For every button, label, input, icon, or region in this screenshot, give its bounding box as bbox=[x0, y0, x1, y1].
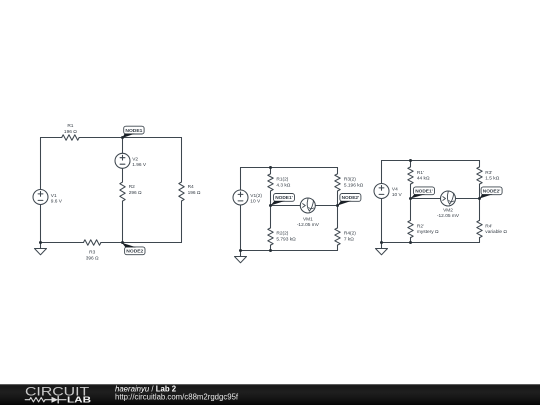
svg-text:VM1: VM1 bbox=[303, 216, 313, 222]
svg-text:196 Ω: 196 Ω bbox=[64, 129, 77, 135]
svg-text:10 V: 10 V bbox=[392, 192, 403, 198]
svg-text:mystery Ω: mystery Ω bbox=[417, 229, 439, 235]
svg-text:10 V: 10 V bbox=[250, 199, 261, 205]
svg-text:R2: R2 bbox=[129, 184, 135, 190]
svg-text:R3': R3' bbox=[485, 170, 492, 176]
svg-text:1.5 kΩ: 1.5 kΩ bbox=[485, 176, 499, 182]
svg-text:V4: V4 bbox=[392, 186, 398, 192]
svg-text:R4(2): R4(2) bbox=[344, 231, 356, 237]
svg-text:NODE2': NODE2' bbox=[483, 189, 501, 195]
svg-text:196 Ω: 196 Ω bbox=[188, 190, 201, 196]
svg-text:http://circuitlab.com/c88m2rgd: http://circuitlab.com/c88m2rgdgc95f bbox=[115, 393, 239, 402]
svg-text:-12.05 mV: -12.05 mV bbox=[297, 222, 320, 228]
svg-text:V1: V1 bbox=[51, 193, 57, 199]
svg-text:R2(2): R2(2) bbox=[276, 231, 288, 237]
svg-text:V1(2): V1(2) bbox=[250, 193, 262, 199]
svg-text:1.96 V: 1.96 V bbox=[132, 162, 147, 168]
svg-text:396 Ω: 396 Ω bbox=[86, 255, 99, 261]
svg-text:V2: V2 bbox=[132, 156, 138, 162]
svg-text:NODE1': NODE1' bbox=[275, 195, 293, 201]
svg-text:NODE1: NODE1 bbox=[125, 128, 142, 134]
svg-text:R2': R2' bbox=[417, 223, 424, 229]
svg-text:44 kΩ: 44 kΩ bbox=[417, 176, 430, 182]
svg-text:R3: R3 bbox=[89, 250, 95, 256]
svg-text:NODE1': NODE1' bbox=[415, 189, 433, 195]
svg-text:7 kΩ: 7 kΩ bbox=[344, 237, 354, 243]
svg-text:4.3 kΩ: 4.3 kΩ bbox=[276, 182, 290, 188]
svg-text:variable Ω: variable Ω bbox=[485, 229, 507, 235]
svg-text:NODE2': NODE2' bbox=[342, 195, 360, 201]
svg-text:R4: R4 bbox=[188, 184, 194, 190]
svg-text:R3(2): R3(2) bbox=[344, 177, 356, 183]
svg-text:296 Ω: 296 Ω bbox=[129, 190, 142, 196]
svg-text:9.6 V: 9.6 V bbox=[51, 199, 63, 205]
svg-text:R1(2): R1(2) bbox=[276, 177, 288, 183]
svg-text:NODE2: NODE2 bbox=[126, 249, 143, 255]
svg-text:R1': R1' bbox=[417, 170, 424, 176]
svg-text:5.793 kΩ: 5.793 kΩ bbox=[276, 237, 296, 243]
svg-text:LAB: LAB bbox=[67, 395, 91, 404]
svg-text:-12.05 mV: -12.05 mV bbox=[437, 213, 460, 219]
svg-text:5.196 kΩ: 5.196 kΩ bbox=[344, 182, 364, 188]
svg-text:VM2: VM2 bbox=[443, 207, 453, 213]
svg-text:R4': R4' bbox=[485, 223, 492, 229]
svg-text:R1: R1 bbox=[67, 123, 73, 129]
